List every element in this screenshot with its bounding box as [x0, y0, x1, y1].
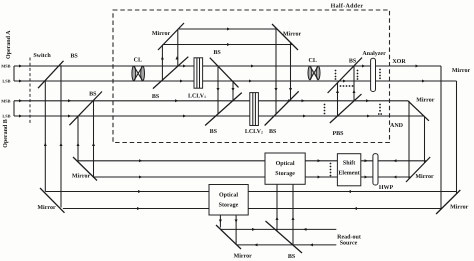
svg-text:Mirror: Mirror [452, 67, 471, 74]
svg-text:BS: BS [269, 129, 277, 135]
svg-text:LSB: LSB [2, 79, 10, 84]
svg-text:Mirror: Mirror [37, 204, 56, 211]
svg-text:BS: BS [288, 254, 296, 260]
svg-text:Mirror: Mirror [450, 203, 469, 210]
svg-text:CL: CL [134, 58, 142, 64]
svg-text:BS: BS [70, 54, 78, 60]
svg-text:Mirror: Mirror [152, 30, 171, 37]
svg-text:Storage: Storage [275, 171, 295, 177]
svg-text:BS: BS [210, 129, 218, 135]
svg-text:Mirror: Mirror [416, 96, 435, 103]
svg-text:LSB: LSB [2, 114, 10, 119]
svg-text:XOR: XOR [392, 59, 406, 65]
svg-text:MSB: MSB [1, 64, 10, 69]
svg-text:Shift: Shift [343, 160, 355, 167]
svg-text:HWP: HWP [379, 185, 394, 191]
svg-text:Mirror: Mirror [415, 173, 434, 180]
svg-text:AND: AND [390, 123, 404, 129]
svg-text:Mirror: Mirror [283, 31, 302, 38]
svg-text:Analyzer: Analyzer [362, 50, 386, 57]
svg-text:CL: CL [309, 58, 317, 64]
svg-text:Storage: Storage [219, 203, 239, 209]
svg-text:Mirror: Mirror [234, 253, 253, 260]
svg-text:LCLV2: LCLV2 [245, 129, 263, 135]
svg-text:MSB: MSB [1, 98, 10, 103]
svg-text:BS: BS [213, 50, 221, 56]
svg-text:Switch: Switch [33, 52, 51, 59]
svg-text:Operand A: Operand A [5, 30, 12, 59]
svg-text:Optical: Optical [219, 192, 238, 199]
svg-text:Mirror: Mirror [72, 173, 91, 180]
svg-text:Half-Adder: Half-Adder [331, 2, 364, 9]
svg-text:Operand B: Operand B [2, 119, 9, 148]
svg-text:Element: Element [338, 170, 359, 177]
svg-text:Source: Source [340, 240, 358, 246]
svg-text:PBS: PBS [332, 131, 344, 137]
svg-text:BS: BS [89, 92, 97, 98]
svg-text:LCLV1: LCLV1 [188, 93, 206, 99]
svg-text:BS: BS [349, 58, 357, 64]
svg-text:Optical: Optical [276, 160, 295, 167]
svg-text:BS: BS [152, 94, 160, 100]
